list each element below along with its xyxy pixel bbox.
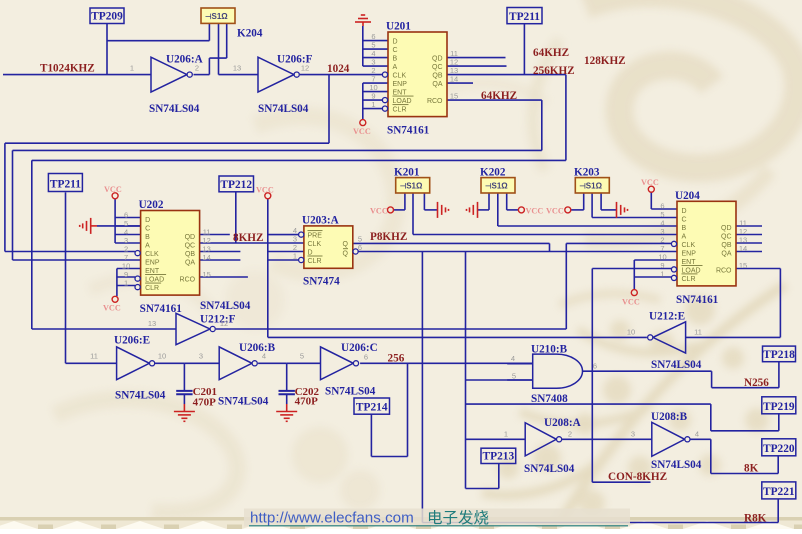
svg-text:13: 13 [148, 319, 156, 328]
svg-text:VCC: VCC [641, 178, 659, 187]
svg-text:LOAD: LOAD [682, 267, 701, 274]
svg-text:RCO: RCO [427, 98, 443, 105]
svg-text:CLR: CLR [682, 276, 696, 283]
svg-text:K204: K204 [237, 28, 263, 40]
svg-text:ENP: ENP [682, 250, 697, 257]
svg-text:VCC: VCC [256, 186, 274, 195]
svg-text:TP220: TP220 [763, 443, 795, 455]
svg-text:A: A [393, 64, 398, 71]
svg-text:8KHZ: 8KHZ [233, 232, 263, 244]
svg-text:3: 3 [199, 352, 203, 361]
svg-text:10: 10 [627, 328, 635, 337]
svg-text:64KHZ: 64KHZ [533, 47, 569, 59]
svg-text:SN74LS04: SN74LS04 [200, 300, 251, 312]
svg-text:S1Ω: S1Ω [492, 182, 509, 191]
svg-text:D: D [145, 217, 150, 224]
svg-text:5: 5 [300, 352, 304, 361]
svg-text:256KHZ: 256KHZ [533, 65, 575, 77]
svg-text:U206:C: U206:C [341, 342, 378, 354]
svg-text:P8KHZ: P8KHZ [370, 231, 407, 243]
svg-text:3: 3 [631, 430, 635, 439]
svg-text:SN74LS04: SN74LS04 [218, 396, 269, 408]
svg-text:CLR: CLR [308, 258, 322, 265]
svg-text:U212:E: U212:E [649, 311, 685, 323]
svg-text:4: 4 [262, 352, 266, 361]
svg-text:QC: QC [185, 243, 196, 250]
svg-text:6: 6 [364, 353, 368, 362]
svg-text:SN74LS04: SN74LS04 [325, 386, 376, 398]
svg-text:SN74LS04: SN74LS04 [651, 359, 702, 371]
svg-text:470P: 470P [193, 397, 217, 409]
svg-text:64KHZ: 64KHZ [481, 90, 517, 102]
svg-text:B: B [393, 56, 398, 63]
svg-text:U206:B: U206:B [239, 342, 276, 354]
svg-text:SN74LS04: SN74LS04 [149, 103, 200, 115]
svg-text:S1Ω: S1Ω [406, 182, 423, 191]
svg-text:B: B [682, 225, 687, 232]
svg-text:QB: QB [721, 242, 731, 249]
svg-text:11: 11 [694, 328, 702, 337]
svg-text:QD: QD [721, 225, 732, 232]
svg-text:LOAD: LOAD [145, 277, 164, 284]
svg-text:1: 1 [660, 269, 664, 278]
svg-text:SN7408: SN7408 [531, 393, 568, 405]
svg-text:U212:F: U212:F [200, 314, 236, 326]
svg-text:TP219: TP219 [763, 401, 795, 413]
svg-text:470P: 470P [295, 396, 319, 408]
svg-text:VCC: VCC [103, 304, 121, 313]
svg-text:1: 1 [371, 100, 375, 109]
svg-text:C: C [682, 216, 687, 223]
svg-text:U206:E: U206:E [114, 335, 150, 347]
svg-text:256: 256 [388, 353, 405, 365]
svg-text:15: 15 [202, 270, 210, 279]
svg-text:SN74LS04: SN74LS04 [115, 390, 166, 402]
svg-text:D: D [308, 250, 313, 257]
svg-text:CLK: CLK [682, 242, 696, 249]
svg-text:SN7474: SN7474 [303, 276, 340, 288]
svg-text:N256: N256 [744, 377, 769, 389]
svg-text:LOAD: LOAD [393, 98, 412, 105]
svg-text:SN74LS04: SN74LS04 [524, 463, 575, 475]
svg-text:QD: QD [432, 56, 443, 63]
svg-text:CLK: CLK [145, 251, 159, 258]
svg-text:TP211: TP211 [50, 179, 81, 191]
svg-text:TP221: TP221 [763, 486, 795, 498]
svg-text:VCC: VCC [622, 298, 640, 307]
svg-text:14: 14 [739, 244, 747, 253]
svg-text:QB: QB [432, 73, 442, 80]
svg-text:5: 5 [512, 372, 516, 381]
svg-text:TP212: TP212 [220, 179, 252, 191]
svg-text:12: 12 [220, 319, 228, 328]
svg-text:11: 11 [90, 352, 98, 361]
svg-text:A: A [145, 243, 150, 250]
svg-text:TP209: TP209 [91, 11, 123, 23]
svg-text:QD: QD [185, 234, 196, 241]
svg-text:CON-8KHZ: CON-8KHZ [608, 471, 667, 483]
svg-text:8K: 8K [744, 463, 759, 475]
svg-text:TP211: TP211 [509, 11, 540, 23]
svg-text:ENT: ENT [682, 259, 697, 266]
svg-text:14: 14 [202, 253, 210, 262]
svg-text:D: D [682, 208, 687, 215]
svg-text:ENP: ENP [393, 81, 408, 88]
svg-text:QB: QB [185, 251, 195, 258]
svg-text:S1Ω: S1Ω [212, 12, 229, 21]
svg-text:S1Ω: S1Ω [586, 182, 603, 191]
svg-text:1: 1 [504, 430, 508, 439]
svg-text:15: 15 [739, 261, 747, 270]
svg-text:A: A [682, 233, 687, 240]
svg-text:PRE: PRE [308, 233, 323, 240]
svg-text:CLR: CLR [145, 285, 159, 292]
svg-text:QC: QC [721, 233, 732, 240]
svg-text:SN74LS04: SN74LS04 [651, 459, 702, 471]
svg-text:6: 6 [593, 362, 597, 371]
svg-text:4: 4 [695, 430, 699, 439]
svg-text:Q: Q [343, 251, 349, 258]
svg-text:U203:A: U203:A [302, 214, 339, 226]
svg-text:CLK: CLK [308, 241, 322, 248]
svg-text:1: 1 [130, 64, 134, 73]
svg-text:14: 14 [450, 75, 458, 84]
svg-text:TP214: TP214 [356, 401, 388, 413]
svg-text:1: 1 [124, 279, 128, 288]
svg-text:D: D [393, 39, 398, 46]
svg-text:U208:B: U208:B [651, 411, 688, 423]
svg-text:VCC: VCC [104, 185, 122, 194]
svg-text:VCC: VCC [370, 207, 388, 216]
svg-text:C: C [393, 47, 398, 54]
svg-text:SN74LS04: SN74LS04 [258, 103, 309, 115]
svg-text:VCC: VCC [546, 207, 564, 216]
svg-text:K203: K203 [574, 167, 600, 179]
svg-text:SN74161: SN74161 [387, 125, 430, 137]
svg-text:ENT: ENT [145, 268, 160, 275]
svg-text:QA: QA [721, 250, 731, 257]
svg-text:128KHZ: 128KHZ [584, 55, 626, 67]
svg-text:C: C [145, 226, 150, 233]
svg-text:B: B [145, 234, 150, 241]
svg-text:10: 10 [158, 352, 166, 361]
svg-text:1024: 1024 [327, 63, 350, 75]
svg-text:U208:A: U208:A [544, 417, 581, 429]
svg-text:U202: U202 [139, 199, 164, 211]
svg-text:http://www.elecfans.com: http://www.elecfans.com [250, 510, 414, 527]
svg-text:U204: U204 [675, 190, 700, 202]
svg-text:2: 2 [568, 430, 572, 439]
svg-text:CLR: CLR [393, 107, 407, 114]
svg-text:12: 12 [301, 64, 309, 73]
svg-text:电子发烧: 电子发烧 [427, 509, 489, 527]
svg-text:TP218: TP218 [763, 349, 795, 361]
svg-text:K202: K202 [480, 167, 506, 179]
svg-text:R8K: R8K [744, 513, 767, 525]
svg-text:U210:B: U210:B [531, 344, 568, 356]
svg-text:2: 2 [195, 64, 199, 73]
svg-text:T1024KHZ: T1024KHZ [40, 63, 95, 75]
svg-text:VCC: VCC [526, 207, 544, 216]
svg-text:U201: U201 [386, 21, 411, 33]
svg-text:RCO: RCO [716, 267, 732, 274]
svg-text:13: 13 [233, 64, 241, 73]
svg-text:QC: QC [432, 64, 443, 71]
svg-text:ENP: ENP [145, 260, 160, 267]
svg-text:ENT: ENT [393, 90, 408, 97]
svg-text:QA: QA [185, 260, 195, 267]
svg-text:TP213: TP213 [483, 451, 515, 463]
svg-text:Q: Q [343, 241, 349, 248]
svg-text:SN74161: SN74161 [676, 294, 719, 306]
svg-text:QA: QA [432, 81, 442, 88]
svg-text:CLK: CLK [393, 73, 407, 80]
svg-text:RCO: RCO [180, 277, 196, 284]
svg-text:15: 15 [450, 92, 458, 101]
svg-text:1: 1 [293, 252, 297, 261]
svg-text:VCC: VCC [353, 127, 371, 136]
svg-text:4: 4 [511, 354, 515, 363]
svg-text:K201: K201 [394, 167, 420, 179]
